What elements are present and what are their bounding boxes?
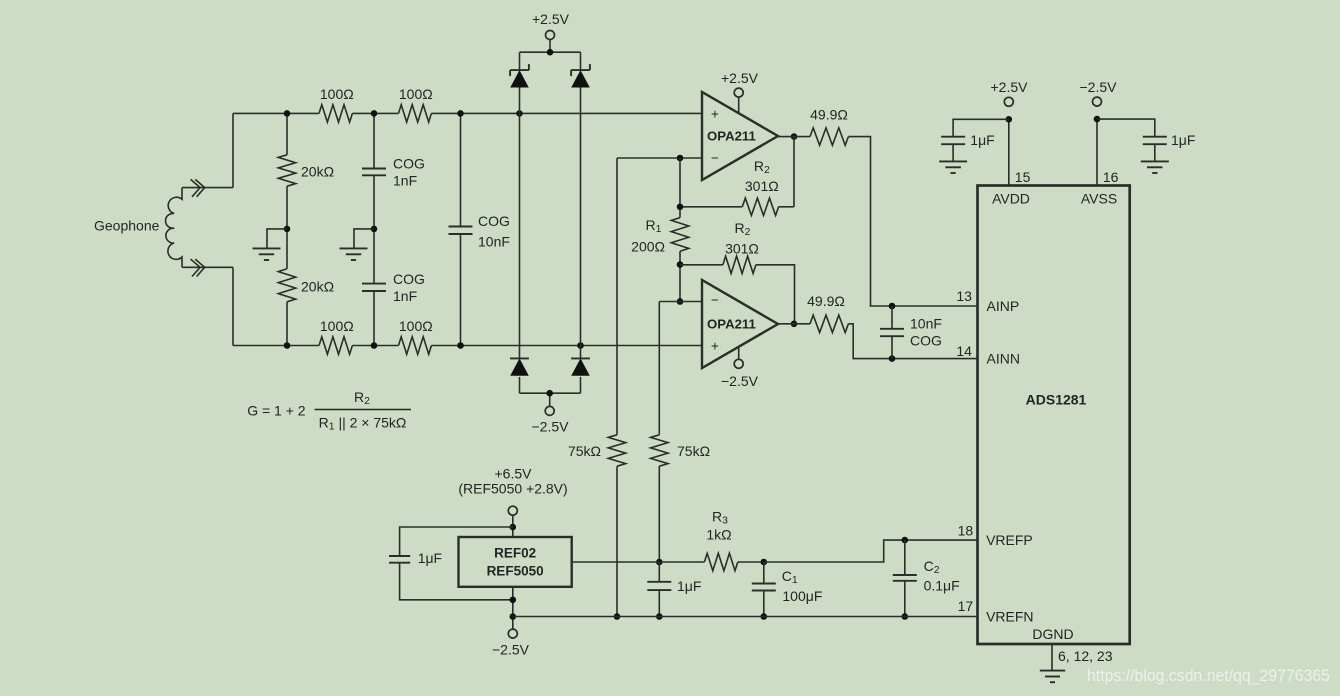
label -2.5V clamp: [532, 419, 570, 435]
node R1 top: [677, 204, 684, 211]
label 0.1uF: [924, 578, 960, 594]
svg-text:+6.5V: +6.5V: [495, 466, 533, 482]
node ref bottom cap: [510, 597, 517, 604]
label 301R bottom: [725, 241, 759, 257]
terminal U2 -2.5V: [734, 359, 743, 368]
wire AVDD bypass: [953, 119, 1009, 136]
capacitor COG 10nF: [449, 227, 473, 235]
svg-text:75kΩ: 75kΩ: [677, 443, 710, 459]
node 20k midpoint: [284, 226, 291, 233]
svg-text:+: +: [711, 106, 719, 121]
label 1uF AVSS: [1171, 132, 1195, 148]
resistor R3 1k: [704, 553, 737, 570]
wire U2 to AINN: [848, 324, 977, 359]
capacitor COG 1nF upper: [362, 169, 386, 176]
zener diode clamp left: [510, 64, 529, 87]
node AVSS: [1094, 116, 1101, 123]
node R1 bottom: [677, 261, 684, 268]
ground right divider: [340, 248, 368, 260]
wire left vertical from geophone top: [232, 113, 234, 187]
svg-text:(REF5050 +2.8V): (REF5050 +2.8V): [458, 481, 567, 497]
label Geophone: [94, 218, 160, 234]
svg-text:1μF: 1μF: [970, 132, 994, 148]
wire VREFN rail: [513, 616, 978, 618]
node ref bottom rail: [510, 613, 517, 620]
svg-text:100Ω: 100Ω: [399, 86, 433, 102]
ground AVDD cap: [939, 161, 967, 173]
wire 1uF ref left loop top: [400, 527, 513, 556]
label COG 1nF lower: [393, 271, 425, 304]
svg-text:1μF: 1μF: [677, 578, 701, 594]
node ref top: [510, 524, 517, 531]
IC REF02/REF5050: [459, 537, 572, 587]
diode clamp right lower: [571, 358, 590, 375]
resistor 49.9R top: [810, 128, 848, 145]
svg-text:DGND: DGND: [1032, 626, 1073, 642]
wire U1 supply stub: [738, 97, 740, 113]
node rail junctions: [284, 110, 584, 349]
wire U2 fb right: [756, 265, 795, 324]
capacitor COG 1nF lower: [362, 284, 386, 291]
wire geophone top lead: [182, 187, 233, 189]
svg-text:14: 14: [956, 343, 972, 359]
wire AVSS bypass: [1097, 119, 1155, 137]
wire U2 supply stub: [738, 347, 740, 360]
pin 13 AINP: [956, 288, 1019, 314]
label 100R bottom-right: [399, 318, 433, 334]
pin 17 VREFN: [958, 598, 1034, 625]
svg-text:100Ω: 100Ω: [399, 318, 433, 334]
wire ref top pin: [512, 515, 514, 537]
wire top rail left segment: [233, 112, 319, 114]
wire clamp top bar: [520, 40, 581, 53]
label +6.5V: [495, 466, 533, 482]
terminal -2.5V AVSS: [1093, 97, 1102, 106]
label COG 1nF upper: [393, 156, 425, 189]
resistor 100R bottom-left: [319, 337, 352, 354]
svg-text:10nF: 10nF: [910, 316, 942, 332]
resistor 75k left: [608, 435, 625, 466]
geophone coil: [166, 188, 182, 268]
svg-text:COG: COG: [478, 213, 510, 229]
label U2 -2.5V: [721, 373, 759, 389]
resistor 100R top-left: [319, 105, 352, 122]
wire 75k right upper: [658, 302, 660, 435]
label 100R top-left: [320, 86, 354, 102]
node AVDD: [1006, 116, 1013, 123]
capacitor C2 0.1uF: [893, 540, 917, 616]
terminal ref -2.5V: [508, 629, 517, 638]
capacitor C1 100uF: [752, 562, 776, 617]
wire ref output: [572, 561, 705, 563]
capacitor 1uF AVSS: [1143, 137, 1167, 162]
svg-text:49.9Ω: 49.9Ω: [807, 293, 845, 309]
svg-text:AINP: AINP: [987, 298, 1020, 314]
wire 20k chain mid: [286, 186, 288, 269]
capacitor 1uF AVDD: [941, 137, 965, 162]
resistor R2 bottom 301R: [723, 256, 756, 273]
svg-text:+: +: [711, 338, 719, 353]
svg-text:1nF: 1nF: [393, 288, 417, 304]
svg-text:OPA211: OPA211: [707, 316, 756, 331]
svg-text:−2.5V: −2.5V: [1080, 79, 1118, 95]
svg-text:100Ω: 100Ω: [320, 318, 354, 334]
wire 75k left upper: [616, 158, 618, 435]
label REF5050+2.8V: [458, 481, 567, 497]
wire ground hook left: [267, 229, 287, 249]
wire R1 top stub: [679, 158, 681, 218]
wire 1nF chain mid: [373, 175, 375, 283]
wire ref bottom pin: [512, 587, 514, 629]
wire U1 output: [778, 136, 810, 138]
wire 1uF ref left loop bottom: [400, 563, 513, 600]
node C2 bottom: [902, 613, 909, 620]
wire 20k chain top stub: [286, 113, 288, 154]
svg-text:301Ω: 301Ω: [725, 241, 759, 257]
label 49.9R top: [810, 107, 848, 123]
svg-text:20kΩ: 20kΩ: [301, 164, 334, 180]
svg-text:49.9Ω: 49.9Ω: [810, 107, 848, 123]
pin 14 AINN: [956, 343, 1020, 366]
svg-text:100Ω: 100Ω: [320, 86, 354, 102]
resistor R1 200R: [671, 218, 688, 252]
svg-text:1μF: 1μF: [418, 550, 442, 566]
label 1uF ref left: [418, 550, 442, 566]
wire U2 inv input: [659, 301, 702, 303]
svg-text:16: 16: [1103, 169, 1119, 185]
node 75k left rail: [614, 613, 621, 620]
label 20k upper: [301, 164, 334, 180]
label R3: [712, 509, 728, 527]
label 100R bottom-left: [320, 318, 354, 334]
wire U1 fb stub: [779, 206, 794, 208]
svg-text:VREFN: VREFN: [986, 609, 1033, 625]
label 1uF AVDD: [970, 132, 994, 148]
wire top rail mid segment: [352, 112, 398, 114]
svg-text:AVSS: AVSS: [1081, 191, 1117, 207]
wire 1nF chain top stub: [373, 113, 375, 168]
polarity chevrons top lead: [191, 179, 205, 196]
wire 75k right lower: [658, 466, 660, 562]
node AINN cap: [889, 355, 896, 362]
capacitor 1uF ref left: [389, 556, 410, 563]
wire geophone bottom lead: [182, 266, 233, 268]
wire refline to VREFP: [764, 540, 978, 562]
label 1k: [706, 527, 731, 543]
capacitor 10nF COG adc: [880, 306, 904, 359]
svg-text:−2.5V: −2.5V: [492, 642, 530, 658]
label 1uF ref mid: [677, 578, 701, 594]
wire top rail right segment: [431, 112, 702, 114]
wire clamp right vertical: [580, 52, 582, 393]
label 10nF COG adc: [910, 316, 942, 349]
op-amp U1 OPA211: [702, 92, 778, 180]
terminal +2.5V clamp: [546, 31, 555, 40]
wire 10nF chain top: [460, 113, 462, 226]
label +2.5V AVDD: [991, 79, 1029, 95]
svg-text:+2.5V: +2.5V: [532, 11, 570, 27]
svg-text:18: 18: [958, 523, 974, 539]
label R1: [646, 217, 662, 235]
svg-text:+2.5V: +2.5V: [721, 70, 759, 86]
label 301R top: [745, 178, 779, 194]
svg-text:COG: COG: [393, 271, 425, 287]
wire bottom rail right segment: [431, 345, 702, 347]
zener diode clamp right: [571, 64, 590, 87]
svg-text:+2.5V: +2.5V: [991, 79, 1029, 95]
label +2.5V clamp: [532, 11, 570, 27]
svg-text:301Ω: 301Ω: [745, 178, 779, 194]
svg-text:1μF: 1μF: [1171, 132, 1195, 148]
label 49.9R bottom: [807, 293, 845, 309]
wire left vertical from geophone bottom: [232, 267, 234, 345]
node U1 output: [791, 133, 798, 140]
svg-text:REF02: REF02: [494, 546, 536, 561]
svg-text:G = 1 + 2: G = 1 + 2: [247, 402, 306, 418]
svg-text:−: −: [711, 150, 719, 165]
label 200R: [631, 238, 665, 254]
node U2 output: [791, 321, 798, 328]
wire DGND stub: [1051, 644, 1053, 671]
node C1 bottom: [761, 613, 768, 620]
svg-text:17: 17: [958, 598, 974, 614]
node C1 top: [761, 559, 768, 566]
wire R1 bottom stub: [679, 251, 681, 301]
node AINP cap: [889, 303, 896, 310]
resistor 20k lower: [278, 269, 295, 302]
wire U1 to AINP: [848, 137, 977, 306]
capacitor 1uF ref mid: [647, 562, 671, 617]
label R2 top: [754, 158, 770, 176]
svg-text:75kΩ: 75kΩ: [568, 443, 601, 459]
wire R3 to C1: [738, 561, 764, 563]
svg-text:AVDD: AVDD: [992, 191, 1030, 207]
node U1 inv: [677, 155, 684, 162]
node clamp top: [547, 49, 554, 56]
svg-text:200Ω: 200Ω: [631, 238, 665, 254]
resistor 20k upper: [278, 155, 295, 186]
wire 1nF chain bottom stub: [373, 291, 375, 346]
label R2 bottom: [735, 220, 751, 238]
svg-text:COG: COG: [393, 156, 425, 172]
svg-text:100μF: 100μF: [782, 588, 822, 604]
wire U1 fb down: [793, 137, 795, 207]
node C2 top: [902, 537, 909, 544]
node 1uF ref mid rail: [656, 613, 663, 620]
wire U1 inv input: [617, 157, 702, 159]
resistor R2 top 301R: [742, 198, 778, 215]
svg-text:OPA211: OPA211: [707, 128, 756, 143]
label 75k left: [568, 443, 601, 459]
terminal -2.5V clamp: [545, 406, 554, 415]
label ref -2.5V: [492, 642, 530, 658]
label 75k right: [677, 443, 710, 459]
resistor 75k right: [651, 435, 668, 466]
svg-text:1kΩ: 1kΩ: [706, 527, 731, 543]
wire 75k left lower: [616, 466, 618, 616]
label -2.5V AVSS: [1080, 79, 1118, 95]
label C1: [782, 568, 798, 586]
terminal +6.5V: [508, 506, 517, 515]
wire U2 fb left: [680, 264, 723, 266]
ground left divider: [253, 248, 281, 260]
wire 10nF chain bottom: [460, 234, 462, 346]
pin 16 AVSS: [1081, 119, 1119, 207]
svg-text:−2.5V: −2.5V: [532, 419, 570, 435]
resistor 100R bottom-right: [399, 337, 432, 354]
svg-text:Geophone: Geophone: [94, 218, 160, 234]
pin 15 AVDD: [992, 119, 1031, 206]
node 75k right refline: [656, 559, 663, 566]
svg-text:10nF: 10nF: [478, 234, 510, 250]
IC ADS1281 outline: [978, 186, 1130, 645]
svg-text:REF5050: REF5050: [487, 564, 544, 579]
svg-text:15: 15: [1015, 169, 1031, 185]
label COG 10nF: [478, 213, 510, 250]
resistor 49.9R bottom: [810, 315, 848, 332]
svg-text:20kΩ: 20kΩ: [301, 279, 334, 295]
wire 20k chain bottom stub: [286, 302, 288, 346]
label 20k lower: [301, 279, 334, 295]
op-amp U2 OPA211: [702, 280, 778, 368]
ground AVSS cap: [1141, 161, 1169, 173]
label ADS1281: [1026, 392, 1087, 408]
terminal +2.5V AVDD: [1004, 97, 1013, 106]
node U2 inv: [677, 298, 684, 305]
svg-text:AINN: AINN: [987, 351, 1020, 367]
label 100R top-right: [399, 86, 433, 102]
pin DGND: [1032, 626, 1073, 642]
label 100uF: [782, 588, 822, 604]
svg-text:ADS1281: ADS1281: [1026, 392, 1087, 408]
svg-text:0.1μF: 0.1μF: [924, 578, 960, 594]
label C2: [924, 558, 940, 576]
resistor 100R top-right: [399, 105, 432, 122]
pin 18 VREFP: [958, 523, 1033, 548]
svg-text:VREFP: VREFP: [986, 532, 1033, 548]
svg-text:−2.5V: −2.5V: [721, 373, 759, 389]
diode clamp left lower: [510, 358, 529, 375]
label U1 +2.5V: [721, 70, 759, 86]
svg-text:1nF: 1nF: [393, 172, 417, 188]
watermark: [1087, 666, 1330, 685]
svg-text:https://blog.csdn.net/qq_29776: https://blog.csdn.net/qq_29776365: [1087, 666, 1330, 685]
node 1nF midpoint: [371, 226, 378, 233]
svg-text:−: −: [711, 292, 719, 307]
wire bottom rail left segment: [233, 345, 319, 347]
gain formula: [247, 389, 411, 433]
svg-text:13: 13: [956, 288, 972, 304]
label DGND pins: [1058, 648, 1113, 664]
node clamp bottom: [546, 390, 553, 397]
terminal U1 +2.5V: [734, 88, 743, 97]
svg-text:6, 12, 23: 6, 12, 23: [1058, 648, 1113, 664]
svg-text:COG: COG: [910, 333, 942, 349]
wire U1 fb to node: [680, 206, 742, 208]
wire ground hook right: [354, 229, 374, 249]
ground DGND: [1040, 671, 1065, 683]
wire bottom rail mid segment: [352, 345, 398, 347]
polarity chevrons bottom lead: [191, 259, 205, 276]
wire clamp left vertical: [519, 52, 521, 393]
wire U2 output: [778, 323, 810, 325]
wire clamp bottom bar: [520, 393, 581, 406]
